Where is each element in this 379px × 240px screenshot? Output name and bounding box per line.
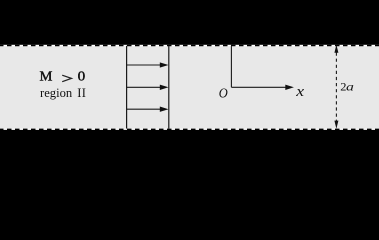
svg-text:a: a: [346, 80, 354, 94]
bottom black region: [0, 130, 379, 175]
slab-width dashed double arrow: [334, 45, 338, 129]
svg-text:region: region: [40, 86, 73, 100]
top black region: [0, 0, 379, 45]
gray slab band: [0, 45, 379, 130]
svg-text:x: x: [295, 84, 305, 100]
x axis: [231, 85, 294, 90]
left vertical line of arrow block: [126, 46, 128, 129]
top border white underlay: [0, 45, 379, 47]
y reference line at origin: [230, 46, 232, 88]
top dashed border: [0, 45, 379, 47]
magnetization arrow 3: [127, 107, 169, 112]
svg-text:0: 0: [78, 70, 86, 85]
svg-text:M: M: [40, 70, 53, 85]
bottom dashed border: [0, 128, 379, 130]
greater-than sign of M > 0: [62, 75, 71, 82]
right vertical line of arrow block: [168, 46, 170, 129]
magnetization arrow 1: [127, 62, 169, 67]
magnetization arrow 2: [127, 85, 169, 90]
background black: [0, 0, 379, 175]
bottom border white underlay: [0, 128, 379, 130]
svg-text:I: I: [82, 86, 86, 100]
svg-text:O: O: [219, 86, 228, 101]
